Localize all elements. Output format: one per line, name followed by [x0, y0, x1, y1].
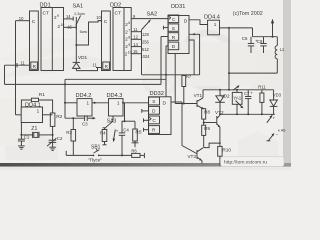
R input stub DD32 [144, 129, 149, 131]
svg-text:9: 9 [128, 43, 130, 47]
diode VD3 [273, 90, 275, 100]
supply rail top [253, 36, 278, 38]
Q output wire DD32 [171, 101, 182, 103]
resistor R6 [132, 153, 140, 157]
resistor R10 [218, 146, 222, 156]
pin numbers and output labels [19, 14, 150, 68]
switch SA2 contact strip [141, 30, 143, 75]
svg-text:http://tom.vstcom.ru: http://tom.vstcom.ru [224, 160, 267, 166]
svg-text:5сек: 5сек [80, 30, 88, 34]
pin 15 stub DD1 [64, 26, 77, 28]
svg-text:(c)Tom 2002: (c)Tom 2002 [233, 11, 263, 17]
rail B [5, 83, 162, 85]
counter DD1 R cell [31, 62, 38, 69]
capacitor C8 [263, 37, 265, 44]
svg-text:R9: R9 [204, 126, 210, 131]
pin 14 stub DD1 [64, 18, 74, 20]
paper background [0, 0, 291, 170]
svg-text:D: D [184, 19, 188, 25]
wire DD4.2 out [92, 102, 109, 104]
vertical connector rails [64, 79, 66, 118]
svg-text:2,3сек: 2,3сек [74, 12, 85, 16]
svg-text:+: + [273, 116, 276, 121]
flip-flop DD31 body [168, 16, 189, 54]
pin 9 wire 2^6 to DD31 C [131, 18, 168, 20]
wire DD31 bottom to VT1 base [174, 54, 176, 104]
svg-text:C6: C6 [242, 36, 248, 41]
inverter DD4.2 body [77, 99, 92, 116]
transistor VT2 [216, 116, 218, 125]
svg-text:DD1: DD1 [40, 2, 51, 8]
svg-text:CT: CT [43, 11, 49, 17]
svg-text:C1: C1 [24, 135, 30, 140]
cell C DD32 [149, 116, 160, 124]
svg-text:R4: R4 [100, 131, 106, 136]
svg-text:7: 7 [128, 28, 130, 32]
switch SA1 arm [76, 15, 81, 25]
svg-text:R: R [172, 35, 176, 41]
svg-text:VT2: VT2 [215, 110, 224, 115]
wire DD4.3 out to DD32 S [123, 102, 149, 104]
trimmer capacitor C2 [52, 135, 54, 140]
svg-text:SB1: SB1 [91, 145, 101, 151]
svg-text:VT3: VT3 [187, 154, 196, 159]
pin 12 stub 2^8 [131, 38, 141, 40]
wire DD4.1 input [16, 114, 22, 116]
wire branch to VT3 collector [219, 142, 221, 144]
svg-text:11: 11 [21, 61, 26, 66]
svg-text:15: 15 [67, 24, 72, 29]
wire DD4.4 output [220, 27, 253, 29]
svg-text:DD31: DD31 [171, 4, 185, 10]
svg-text:R1: R1 [39, 92, 45, 98]
svg-text:D: D [172, 44, 176, 50]
svg-text:C8: C8 [257, 39, 263, 44]
counter DD2 left field [102, 11, 111, 71]
counter DD1 main body [41, 8, 64, 71]
cell S DD31 [168, 24, 179, 31]
right gray band [283, 0, 291, 170]
svg-text:DD4.2: DD4.2 [76, 93, 92, 99]
wire SA1 common down [75, 17, 77, 45]
wire vertical to relay rail [228, 27, 230, 29]
svg-text:12: 12 [133, 35, 138, 40]
svg-text:VT1: VT1 [194, 93, 203, 98]
svg-text:S: S [152, 99, 155, 105]
resistor R3 [72, 118, 74, 129]
pin 15 stub 2^10 [131, 53, 141, 55]
svg-text:Z1: Z1 [31, 126, 37, 132]
svg-text:128: 128 [142, 32, 150, 37]
counter DD2 R cell [103, 62, 110, 69]
svg-text:1: 1 [117, 101, 120, 106]
svg-text:DD4.1: DD4.1 [25, 102, 41, 108]
resistor R2 [50, 113, 55, 126]
svg-text:C: C [104, 19, 108, 25]
wire SA2 common to R7 [142, 74, 200, 76]
capacitor C4 [121, 121, 123, 133]
C input stub DD32 [144, 119, 149, 121]
svg-text:C2: C2 [57, 136, 63, 141]
resistor R1 [31, 98, 38, 101]
node from DD4.4 wire [228, 89, 230, 91]
svg-text:6: 6 [128, 21, 130, 25]
wire output rail to L1 [229, 72, 277, 74]
counter DD1 left field [30, 11, 39, 71]
cell S DD32 [149, 97, 160, 105]
wire row y121 [122, 120, 136, 122]
svg-text:DD2: DD2 [110, 2, 121, 8]
svg-text:SA1: SA1 [73, 4, 84, 10]
svg-text:R3: R3 [66, 130, 72, 135]
svg-text:к А6: к А6 [278, 129, 285, 133]
svg-text:C4: C4 [123, 128, 129, 133]
wire DD4.1 output [43, 114, 53, 116]
url button [221, 157, 285, 167]
watermark shapes [0, 33, 283, 160]
svg-text:D: D [152, 109, 156, 115]
node C4 on rail [121, 154, 123, 156]
resistor R8 [202, 109, 206, 120]
svg-text:VD2: VD2 [221, 93, 230, 98]
switch SA3 [112, 116, 114, 121]
svg-text:SA2: SA2 [147, 12, 158, 18]
svg-text:14: 14 [66, 14, 71, 19]
counter DD2 divider [123, 8, 125, 71]
svg-text:R: R [152, 128, 156, 134]
resistor R5 [134, 121, 136, 129]
svg-text:DD32: DD32 [150, 91, 164, 97]
pin 10 stub DD1 C [16, 20, 30, 22]
svg-text:11: 11 [93, 63, 98, 68]
counter DD2 main body [113, 8, 131, 71]
copyright and url [221, 11, 285, 167]
svg-text:10: 10 [19, 16, 24, 21]
connector arrow minus [269, 134, 274, 140]
wire rail mid right [203, 89, 274, 91]
cell D DD31 [168, 42, 179, 50]
D input stub DD32 [142, 110, 149, 112]
wire VT2 emitter down [219, 127, 221, 146]
diode VD2 [219, 89, 221, 91]
capacitor C3 [65, 117, 84, 119]
svg-text:C: C [32, 19, 36, 25]
svg-text:R8: R8 [204, 110, 210, 115]
cell R DD31 [168, 33, 179, 41]
resistor R7 [182, 76, 186, 87]
crystal ZQ1 [20, 123, 22, 135]
svg-text:S: S [172, 26, 175, 32]
bottom dark band [0, 163, 291, 167]
capacitor C6 [250, 37, 252, 44]
wire to DD32 top [165, 46, 167, 97]
svg-text:R7: R7 [186, 74, 192, 79]
svg-text:1024: 1024 [140, 54, 150, 59]
svg-text:R10: R10 [222, 148, 231, 153]
pin 11 stub 2^7 [131, 31, 141, 33]
svg-text:1: 1 [214, 22, 217, 27]
svg-text:R11: R11 [258, 85, 266, 90]
svg-text:DD4.4: DD4.4 [204, 14, 220, 20]
svg-text:1: 1 [87, 101, 90, 106]
svg-text:YA1: YA1 [233, 95, 242, 100]
switch SA2 arm [142, 20, 151, 30]
diode VD1 [75, 45, 77, 62]
ground [18, 145, 25, 147]
inverter DD4.1 body [21, 107, 42, 123]
svg-text:SA3: SA3 [107, 118, 117, 124]
svg-text:256: 256 [142, 40, 150, 45]
svg-text:9: 9 [57, 14, 59, 18]
R input wire DD31 [161, 36, 168, 38]
wire left vertical from pin 11 [4, 65, 6, 84]
pin 10 stub DD2 C [98, 20, 102, 22]
svg-text:10: 10 [96, 15, 101, 20]
supply arrow [272, 22, 274, 37]
resistor R4 [103, 127, 107, 129]
wire DD4.3 out down [124, 103, 126, 121]
svg-text:R: R [33, 64, 36, 69]
inverter DD4.3 body [109, 99, 124, 116]
svg-text:R: R [105, 64, 108, 69]
svg-text:C: C [152, 118, 156, 124]
bottom rail right [220, 113, 275, 115]
svg-text:R6: R6 [131, 149, 137, 154]
svg-text:15: 15 [133, 49, 138, 54]
electromagnet YA1 [236, 89, 238, 91]
button SB1 [93, 155, 95, 157]
svg-text:−: − [276, 132, 279, 137]
cell D DD32 [149, 106, 160, 114]
inverter DD4.4 body [208, 20, 220, 35]
rail A [65, 78, 166, 80]
S input stub DD31 [164, 27, 169, 29]
feedback wire DD31 lower [189, 40, 194, 75]
cell C DD31 [168, 15, 179, 23]
transistor VT3 [196, 150, 198, 159]
svg-text:D: D [163, 101, 167, 107]
svg-text:"Пуск": "Пуск" [88, 158, 102, 164]
Q output wire DD31 to DD4.4 [189, 20, 208, 25]
counter DD1 divider [51, 8, 53, 71]
wire VD1 to DD2 R [76, 68, 101, 71]
capacitor C1 [20, 135, 22, 139]
svg-text:CT: CT [115, 11, 121, 17]
wire SA1 to DD2 C [76, 21, 101, 45]
D input wire DD31 [166, 45, 168, 47]
feedback wire DD31 upper [189, 34, 200, 75]
capacitor C7 [247, 90, 249, 97]
svg-text:1: 1 [37, 109, 40, 114]
svg-text:+: + [116, 129, 119, 134]
connector arrow on rail [233, 86, 238, 90]
svg-text:C: C [172, 17, 176, 23]
connector arrow plus [267, 116, 272, 123]
svg-text:10: 10 [128, 50, 132, 54]
svg-text:DD4.3: DD4.3 [107, 93, 123, 99]
pin 14 stub 2^9 [131, 46, 141, 48]
resistor R11 [261, 90, 263, 93]
wire DD1 clock vertical [15, 21, 17, 115]
svg-text:R2: R2 [56, 114, 62, 120]
svg-text:8: 8 [128, 36, 130, 40]
pin 11 stub DD2 R [96, 67, 102, 69]
svg-text:10: 10 [61, 23, 65, 27]
svg-text:VD3: VD3 [273, 93, 282, 98]
svg-text:512: 512 [142, 47, 150, 52]
svg-text:14: 14 [133, 42, 138, 47]
svg-text:C3: C3 [82, 122, 88, 127]
flip-flop DD32 body [149, 97, 172, 135]
svg-text:R5: R5 [135, 130, 141, 136]
cell letters DD31/DD32, gate "1" marks [37, 17, 217, 134]
pin 11 stub DD1 R [5, 64, 30, 66]
supply rail jog [252, 28, 254, 37]
svg-text:L1: L1 [280, 47, 285, 52]
svg-text:C7: C7 [244, 91, 250, 96]
cell R DD32 [149, 126, 160, 134]
inductor L1 [276, 37, 278, 46]
node SA1 junction [75, 44, 77, 46]
ground [49, 146, 56, 148]
node base VT2 [203, 119, 205, 125]
svg-text:VD1: VD1 [78, 55, 88, 60]
svg-text:11: 11 [133, 27, 138, 32]
resistor R9 [202, 125, 206, 135]
transistor VT1 [175, 103, 197, 105]
wire bottom rail [66, 154, 93, 156]
